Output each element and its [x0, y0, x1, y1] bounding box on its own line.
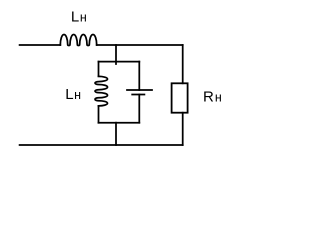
- wire: tank right leg upper (to capacitor): [138, 62, 140, 90]
- wire: right branch down to resistor: [182, 45, 184, 83]
- capacitor C1 top plate: [127, 89, 152, 91]
- inductor L1 (top, label Lн): [60, 35, 96, 46]
- svg-text:Rн: Rн: [203, 88, 222, 105]
- wire: tank left leg lower: [98, 106, 100, 123]
- wire: center branch from tank bottom to bottom wire: [115, 123, 117, 145]
- svg-text:Lн: Lн: [71, 8, 87, 25]
- wire: center branch from top wire to tank: [115, 45, 117, 64]
- wire: top-left input lead: [20, 44, 61, 46]
- svg-text:Lн: Lн: [65, 86, 81, 103]
- wire: capacitor to tank bottom: [138, 95, 140, 123]
- wire: tank left leg upper: [98, 62, 100, 77]
- wire: top, inductor to right branch: [97, 44, 183, 46]
- wire: resistor to bottom wire: [182, 113, 184, 145]
- capacitor C1 bottom plate: [132, 94, 144, 96]
- inductor L2 (vertical, label Lн): [95, 76, 108, 105]
- wire: bottom horizontal: [20, 144, 183, 146]
- wire: tank bottom horizontal: [99, 122, 140, 124]
- resistor RH box: [172, 83, 188, 112]
- wire: tank top horizontal: [99, 61, 140, 63]
